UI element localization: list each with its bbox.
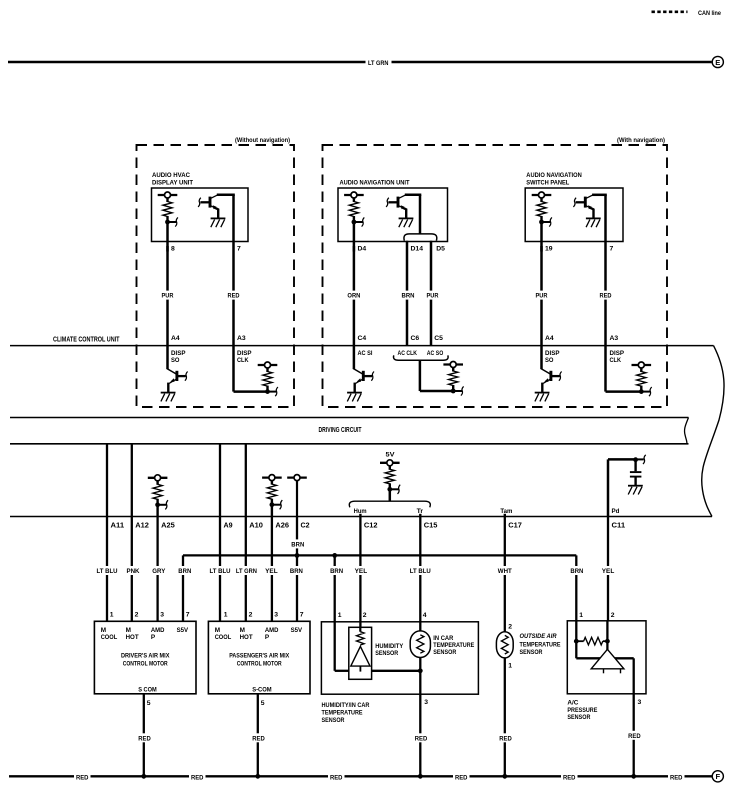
label RED (bus 3) xyxy=(330,774,343,781)
label RED (driver motor) xyxy=(137,733,152,742)
wire A10 from driving circuit xyxy=(245,444,247,517)
svg-text:1: 1 xyxy=(579,612,583,619)
pin A11 xyxy=(111,520,125,529)
pin A3 (with navigation) xyxy=(610,335,619,342)
svg-text:BRN: BRN xyxy=(402,293,415,300)
signal label Hum xyxy=(354,508,367,515)
svg-text:A4: A4 xyxy=(171,335,180,342)
label BRN (C2 above bus) xyxy=(290,539,306,548)
svg-text:CLK: CLK xyxy=(610,357,622,364)
svg-text:M: M xyxy=(215,627,220,634)
svg-text:S COM: S COM xyxy=(138,687,157,694)
wire RED driver motor pin5 to ground bus xyxy=(143,694,145,777)
svg-text:Pd: Pd xyxy=(612,508,620,515)
svg-text:SENSOR: SENSOR xyxy=(567,714,590,721)
svg-text:3: 3 xyxy=(638,699,642,706)
junction dot driver motor/ground bus xyxy=(141,774,146,779)
svg-text:5V: 5V xyxy=(386,451,395,458)
wire YEL A26 to motor pin3 xyxy=(271,517,273,622)
svg-text:1: 1 xyxy=(224,612,228,619)
pin 2 (A/C pressure) xyxy=(611,612,615,619)
svg-text:S-COM: S-COM xyxy=(252,687,272,694)
svg-text:3: 3 xyxy=(424,699,428,706)
pin 3 (A/C pressure) xyxy=(638,699,642,706)
svg-text:P: P xyxy=(151,634,156,641)
pin 3 (humidity/in-car) xyxy=(424,699,428,706)
svg-text:SO: SO xyxy=(171,357,180,364)
wire LT BLU C15 to in-car temp sensor pin4 xyxy=(419,517,421,632)
pin 4 (in-car temp) xyxy=(423,612,427,619)
pull-up resistor AC CLK/SO (climate side) xyxy=(443,362,463,396)
signal label Pd xyxy=(612,508,620,515)
svg-text:DISP: DISP xyxy=(171,350,186,357)
connector F xyxy=(712,771,723,782)
label RED (bus 6) xyxy=(670,774,683,781)
caption (With navigation) xyxy=(617,137,665,144)
svg-text:BRN: BRN xyxy=(178,568,191,575)
wire LT BLU A11 to motor pin1 xyxy=(106,517,108,622)
power symbol and resistor 5V (sensor supply) xyxy=(380,460,400,494)
box M1 DRIVER'S AIR MIX CONTROL MOTOR xyxy=(94,621,196,694)
wire pin D4 internal xyxy=(353,222,356,252)
label PNK xyxy=(125,566,141,575)
svg-text:D4: D4 xyxy=(358,246,367,253)
wire YEL C12 to humidity sensor pin2 xyxy=(359,517,361,632)
power symbol and pull-up resistor (nav unit) xyxy=(344,192,364,227)
wire YEL C11 to A/C pressure sensor pin2 xyxy=(607,517,609,621)
svg-text:F: F xyxy=(715,772,720,781)
svg-text:HOT: HOT xyxy=(126,634,139,641)
transistor Q4 AC SI driver xyxy=(347,368,374,401)
wire LT GRN (to connector E) xyxy=(8,61,712,64)
svg-text:C5: C5 xyxy=(434,335,443,342)
label 5V xyxy=(386,451,395,458)
svg-text:RED: RED xyxy=(138,735,151,742)
wire PUR D5 to C5 xyxy=(430,241,433,346)
svg-text:YEL: YEL xyxy=(602,568,615,575)
svg-text:SO: SO xyxy=(545,357,554,364)
wire output (behind amplifier) to pin 3 xyxy=(576,641,633,694)
label YEL (C12) xyxy=(353,566,368,575)
junction dot outside air/ground bus xyxy=(502,774,507,779)
svg-text:SENSOR: SENSOR xyxy=(520,649,543,656)
terminal label S-COM xyxy=(252,687,272,694)
wire pin1 internal to humidity element xyxy=(335,622,349,671)
label IN CAR TEMPERATURE SENSOR xyxy=(433,635,475,656)
pin 3 (passenger motor) xyxy=(274,612,278,619)
svg-text:S5V: S5V xyxy=(177,627,189,634)
svg-text:1: 1 xyxy=(110,612,114,619)
label RED (passenger motor) xyxy=(251,733,266,742)
pin 7 (passenger motor) xyxy=(300,612,304,619)
svg-text:D5: D5 xyxy=(436,246,445,253)
pin D5 xyxy=(436,246,445,253)
svg-text:C6: C6 xyxy=(411,335,420,342)
svg-text:DRIVER'S AIR MIX: DRIVER'S AIR MIX xyxy=(121,653,170,660)
svg-text:CONTROL MOTOR: CONTROL MOTOR xyxy=(237,661,282,668)
svg-text:(With navigation): (With navigation) xyxy=(617,137,665,144)
svg-text:AMD: AMD xyxy=(265,627,279,634)
svg-text:E: E xyxy=(715,58,720,67)
svg-text:M: M xyxy=(101,627,106,634)
dashed box (With navigation) xyxy=(323,145,668,407)
pin 7 (driver motor) xyxy=(186,612,190,619)
svg-text:C12: C12 xyxy=(364,520,378,529)
svg-text:DISPLAY UNIT: DISPLAY UNIT xyxy=(152,180,193,187)
wire LT GRN A10 to motor pin2 xyxy=(245,517,247,622)
label RED (bus 5) xyxy=(563,774,576,781)
label RED (outside air) xyxy=(498,733,513,742)
svg-text:RED: RED xyxy=(499,735,512,742)
svg-text:ORN: ORN xyxy=(347,293,360,300)
pin 3 (driver motor) xyxy=(160,612,164,619)
ground bus wire RED (to connector F) xyxy=(9,775,712,777)
title PASSENGER'S AIR MIX CONTROL MOTOR xyxy=(229,653,289,668)
wire C2 stub xyxy=(296,480,298,516)
pin A25 xyxy=(161,520,175,529)
svg-text:C15: C15 xyxy=(424,520,438,529)
pin 5 (driver motor) xyxy=(147,700,151,707)
svg-text:AMD: AMD xyxy=(151,627,165,634)
box S1 HUMIDITY/IN CAR TEMPERATURE SENSOR xyxy=(321,622,478,694)
svg-text:Hum: Hum xyxy=(354,508,367,515)
svg-text:DRIVING CIRCUIT: DRIVING CIRCUIT xyxy=(319,427,363,434)
signal label AC CLK xyxy=(398,350,418,357)
signal label Tr xyxy=(417,508,424,515)
svg-text:C17: C17 xyxy=(508,520,522,529)
wire brace to pull-up xyxy=(420,360,453,391)
brace joining D14 and D5 xyxy=(404,234,437,241)
signal label AC SI xyxy=(358,350,373,357)
svg-text:RED: RED xyxy=(228,293,240,300)
title AUDIO NAVIGATION SWITCH PANEL xyxy=(526,172,582,187)
svg-text:PNK: PNK xyxy=(127,568,140,575)
humidity element amplifier triangle xyxy=(351,646,370,671)
wire A11 from driving circuit xyxy=(106,444,108,517)
label LT BLU xyxy=(208,566,232,575)
wire Tam stub to C17 xyxy=(504,514,506,517)
label PUR xyxy=(160,291,175,300)
junction dot C2/bus xyxy=(295,553,300,558)
climate control unit bottom boundary (connector row) xyxy=(10,516,712,518)
wire LT BLU A9 to motor pin1 xyxy=(219,517,221,622)
svg-text:A12: A12 xyxy=(135,520,149,529)
svg-text:BRN: BRN xyxy=(330,568,343,575)
svg-text:RED: RED xyxy=(628,733,641,740)
box S2 A/C PRESSURE SENSOR xyxy=(567,621,646,694)
svg-text:2: 2 xyxy=(135,612,139,619)
svg-text:PASSENGER'S AIR MIX: PASSENGER'S AIR MIX xyxy=(229,653,289,660)
svg-text:4: 4 xyxy=(423,612,427,619)
svg-text:LT GRN: LT GRN xyxy=(368,60,389,67)
svg-text:RED: RED xyxy=(252,735,265,742)
svg-text:C11: C11 xyxy=(612,520,626,529)
pin C11 xyxy=(612,520,626,529)
svg-text:7: 7 xyxy=(237,246,241,253)
wire C11 up and right to capacitor xyxy=(608,459,636,516)
pin 7 (switch panel) xyxy=(610,246,614,253)
climate control unit torn right edge xyxy=(702,346,724,517)
wire PUR pin19 to A4 xyxy=(540,246,543,346)
pin 5 (passenger motor) xyxy=(261,700,265,707)
svg-text:PUR: PUR xyxy=(536,293,548,300)
svg-text:A10: A10 xyxy=(249,520,263,529)
svg-text:RED: RED xyxy=(670,774,683,781)
transistor Q1 (display unit) xyxy=(198,195,235,227)
svg-text:TEMPERATURE: TEMPERATURE xyxy=(322,710,364,717)
wire A4 to transistor xyxy=(540,346,543,369)
pin A4 (with navigation) xyxy=(545,335,554,342)
legend CAN line dashed sample xyxy=(652,11,688,14)
caption A/C PRESSURE SENSOR xyxy=(567,700,598,722)
svg-text:AUDIO NAVIGATION: AUDIO NAVIGATION xyxy=(526,172,582,179)
wire PNK A12 to motor pin2 xyxy=(131,517,133,622)
junction dot humidity/in-car output xyxy=(418,668,423,673)
wire A3 down and right to pull-up xyxy=(234,346,268,392)
pin 7 xyxy=(237,246,241,253)
brace joining AC CLK and AC SO xyxy=(394,355,449,360)
svg-text:CLIMATE CONTROL UNIT: CLIMATE CONTROL UNIT xyxy=(53,334,120,343)
wire RED pin7 to A3 xyxy=(604,195,607,346)
title DRIVER'S AIR MIX CONTROL MOTOR xyxy=(121,653,170,668)
label BRN (humidity pin1) xyxy=(329,566,345,575)
label BRN (passenger S5V) xyxy=(289,566,305,575)
svg-text:RED: RED xyxy=(191,774,204,781)
pin A26 xyxy=(275,520,289,529)
wire A9 from driving circuit xyxy=(219,444,221,517)
pin 1 (passenger motor) xyxy=(224,612,228,619)
pull-up resistor DISP CLK (climate side) xyxy=(258,362,278,396)
wire A25 stub xyxy=(156,505,158,517)
wire in-car temp to junction xyxy=(419,658,421,671)
brace joining Hum and Tr xyxy=(349,501,430,507)
pull-up resistor on A25 xyxy=(148,475,168,510)
pin C5 xyxy=(434,335,443,342)
svg-text:AC SO: AC SO xyxy=(427,350,444,357)
signal label DISP CLK xyxy=(237,350,252,364)
pin C2 xyxy=(301,520,310,529)
junction dot left of resistor xyxy=(574,639,579,644)
label ORN xyxy=(346,291,362,300)
svg-text:PUR: PUR xyxy=(427,293,439,300)
svg-text:2: 2 xyxy=(508,623,512,630)
title AUDIO HVAC DISPLAY UNIT xyxy=(152,172,193,187)
label CLIMATE CONTROL UNIT xyxy=(53,334,120,343)
wire BRN bus to driver motor pin7 xyxy=(182,555,184,621)
label BRN (A/C pressure pin1) xyxy=(569,566,585,575)
amplifier triangle (A/C pressure) xyxy=(591,649,624,673)
svg-text:HOT: HOT xyxy=(240,634,253,641)
wire GRY A25 to motor pin3 xyxy=(156,517,158,622)
svg-text:SENSOR: SENSOR xyxy=(375,650,398,657)
svg-text:A11: A11 xyxy=(111,520,125,529)
svg-text:A3: A3 xyxy=(610,335,619,342)
wire RED A/C pressure pin3 to ground bus xyxy=(633,694,635,776)
wire pin 8 internal xyxy=(166,222,169,252)
outside air temp sensor element (thermistor) xyxy=(496,632,513,658)
svg-text:COOL: COOL xyxy=(101,634,118,641)
terminal labels passenger motor xyxy=(215,627,303,641)
svg-text:1: 1 xyxy=(508,662,512,669)
svg-text:5: 5 xyxy=(147,700,151,707)
svg-text:M: M xyxy=(240,627,245,634)
junction dot humidity output/ground bus xyxy=(418,774,423,779)
svg-text:2: 2 xyxy=(363,612,367,619)
caption (Without navigation) xyxy=(235,137,290,144)
wire Tr stub to C15 xyxy=(419,514,421,517)
svg-text:Tr: Tr xyxy=(417,508,424,515)
svg-text:7: 7 xyxy=(186,612,190,619)
transistor Q6 DISP SO driver xyxy=(535,368,562,401)
svg-text:PUR: PUR xyxy=(162,293,174,300)
wire pin 19 internal xyxy=(540,222,543,252)
label RED xyxy=(226,291,241,300)
wire RED passenger motor pin5 to ground bus xyxy=(257,694,259,777)
svg-text:RED: RED xyxy=(76,774,89,781)
pin A4 xyxy=(171,335,180,342)
svg-text:LT BLU: LT BLU xyxy=(97,568,118,575)
svg-text:DISP: DISP xyxy=(545,350,560,357)
svg-text:DISP: DISP xyxy=(237,350,252,357)
climate control unit top boundary xyxy=(10,345,714,347)
svg-text:LT BLU: LT BLU xyxy=(210,568,231,575)
svg-text:2: 2 xyxy=(611,612,615,619)
signal label Tam xyxy=(500,508,512,515)
svg-text:RED: RED xyxy=(563,774,576,781)
humidity element resistor xyxy=(357,627,365,645)
svg-text:HUMIDITY/IN CAR: HUMIDITY/IN CAR xyxy=(322,702,370,709)
pull-up resistor on A26 xyxy=(262,475,282,510)
wire A4 to transistor xyxy=(166,346,169,369)
pin 1 (driver motor) xyxy=(110,612,114,619)
driving circuit torn right edge xyxy=(685,418,689,444)
pin C15 xyxy=(424,520,438,529)
svg-text:CONTROL MOTOR: CONTROL MOTOR xyxy=(123,661,168,668)
label RED (bus 2) xyxy=(191,774,204,781)
ground (capacitor) xyxy=(628,486,643,495)
wire PUR pin8 to A4 xyxy=(166,246,169,346)
ground (display unit transistor) xyxy=(0,0,1,1)
wire BRN D14 to C6 xyxy=(406,241,409,346)
pin D14 xyxy=(411,246,424,253)
wire RED outside air to ground bus xyxy=(504,658,506,776)
power symbol on C2 xyxy=(287,475,307,481)
label DRIVING CIRCUIT xyxy=(319,427,363,434)
label WHT xyxy=(497,566,514,575)
wire junction to pin 3 xyxy=(419,671,421,694)
label PUR xyxy=(534,291,549,300)
svg-text:7: 7 xyxy=(300,612,304,619)
wire C4 to transistor xyxy=(353,346,356,369)
terminal tick right of capacitor node xyxy=(636,455,646,464)
svg-text:M: M xyxy=(126,627,131,634)
box U1 AUDIO HVAC DISPLAY UNIT xyxy=(152,188,249,242)
pin 2 (driver motor) xyxy=(135,612,139,619)
svg-text:OUTSIDE AIR: OUTSIDE AIR xyxy=(520,633,557,640)
svg-text:D14: D14 xyxy=(411,246,424,253)
pin 19 xyxy=(545,246,553,253)
label PUR xyxy=(425,291,440,300)
signal label DISP SO xyxy=(171,350,186,364)
svg-text:RED: RED xyxy=(600,293,612,300)
wire RED pin3 to ground bus xyxy=(419,694,421,776)
signal label DISP SO xyxy=(545,350,560,364)
pin 1 (humidity) xyxy=(338,612,342,619)
wire RED pin7 to A3 xyxy=(232,195,235,346)
svg-text:AC CLK: AC CLK xyxy=(398,350,418,357)
svg-text:A/C: A/C xyxy=(567,700,578,707)
label LT GRN xyxy=(368,60,389,67)
junction dot A/C pressure/ground bus xyxy=(631,774,636,779)
svg-text:8: 8 xyxy=(171,246,175,253)
driving circuit band top line xyxy=(10,417,689,419)
wire A26 stub xyxy=(271,505,273,517)
driving circuit band bottom line xyxy=(10,443,689,445)
wire WHT C17 to outside air temp sensor pin2 xyxy=(504,517,506,634)
svg-text:YEL: YEL xyxy=(265,568,278,575)
svg-text:A25: A25 xyxy=(161,520,175,529)
wire ORN D4 to C4 xyxy=(353,246,356,346)
pin C6 xyxy=(411,335,420,342)
box U3 AUDIO NAVIGATION SWITCH PANEL xyxy=(525,188,623,242)
svg-text:TEMPERATURE: TEMPERATURE xyxy=(520,641,562,648)
label BRN xyxy=(400,291,416,300)
pin C17 xyxy=(508,520,522,529)
svg-text:RED: RED xyxy=(455,774,468,781)
junction dot passenger motor/ground bus xyxy=(255,774,260,779)
pin 2 (outside air) xyxy=(508,623,512,630)
transistor Q5 (switch panel) xyxy=(573,195,606,227)
svg-text:2: 2 xyxy=(249,612,253,619)
svg-text:GRY: GRY xyxy=(152,568,166,575)
svg-text:1: 1 xyxy=(338,612,342,619)
svg-text:A3: A3 xyxy=(237,335,246,342)
svg-text:SENSOR: SENSOR xyxy=(433,649,456,656)
svg-text:AUDIO NAVIGATION UNIT: AUDIO NAVIGATION UNIT xyxy=(340,179,410,186)
wire pin2 internal down to amplifier xyxy=(606,621,608,650)
label RED (bus 1) xyxy=(76,774,89,781)
pull-up resistor DISP CLK (climate side) xyxy=(632,362,652,396)
resistor (A/C pressure bridge) xyxy=(576,637,607,645)
power symbol and pull-up resistor (switch panel) xyxy=(532,192,552,227)
svg-text:COOL: COOL xyxy=(215,634,232,641)
pin A10 xyxy=(249,520,263,529)
svg-text:CLK: CLK xyxy=(237,357,249,364)
wire A12 from driving circuit xyxy=(131,444,133,517)
pin 8 xyxy=(171,246,175,253)
label LT BLU xyxy=(95,566,119,575)
svg-text:P: P xyxy=(265,634,270,641)
wire BRN C2 to passenger motor pin7 xyxy=(296,517,298,622)
pin A3 xyxy=(237,335,246,342)
svg-text:RED: RED xyxy=(415,735,428,742)
svg-text:C2: C2 xyxy=(301,520,310,529)
wire transistor to brace xyxy=(419,195,422,234)
label RED (humidity/in-car) xyxy=(413,733,428,742)
pin 2 (humidity) xyxy=(363,612,367,619)
svg-text:SWITCH PANEL: SWITCH PANEL xyxy=(526,180,569,187)
wire 5V to brace xyxy=(389,489,392,501)
humidity sensor element box xyxy=(349,627,372,679)
label RED (A/C pressure) xyxy=(627,731,642,740)
pin 2 (passenger motor) xyxy=(249,612,253,619)
wire A3 down and right to pull-up xyxy=(606,346,642,392)
svg-text:A9: A9 xyxy=(224,520,233,529)
svg-text:S5V: S5V xyxy=(291,627,303,634)
svg-text:CAN line: CAN line xyxy=(698,10,721,17)
legend label CAN line xyxy=(698,10,721,17)
label OUTSIDE AIR TEMPERATURE SENSOR xyxy=(520,633,562,656)
